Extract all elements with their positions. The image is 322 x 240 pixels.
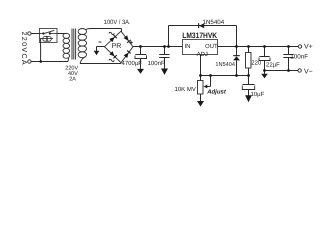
svg-text:100nF: 100nF: [290, 53, 308, 60]
svg-text:Adjust: Adjust: [206, 88, 227, 95]
svg-text:4700µF: 4700µF: [122, 60, 143, 67]
svg-text:IN: IN: [185, 43, 191, 50]
svg-text:1N5404: 1N5404: [203, 19, 225, 26]
svg-text:ADJ: ADJ: [197, 51, 208, 58]
svg-text:OUT: OUT: [205, 43, 218, 50]
svg-text:220VCA: 220VCA: [20, 32, 28, 67]
svg-text:LM317HVK: LM317HVK: [182, 31, 217, 40]
svg-text:10µF: 10µF: [251, 91, 265, 98]
svg-text:220: 220: [251, 60, 262, 67]
svg-text:V+: V+: [304, 44, 313, 51]
svg-text:100nF: 100nF: [148, 60, 165, 67]
svg-text:PR: PR: [112, 43, 122, 50]
svg-text:V−: V−: [304, 69, 313, 76]
svg-text:100V / 3A.: 100V / 3A.: [104, 19, 131, 26]
svg-text:22µF: 22µF: [266, 61, 280, 68]
svg-text:10K MV: 10K MV: [175, 86, 196, 93]
svg-text:1N5404: 1N5404: [215, 62, 235, 68]
svg-text:2A: 2A: [69, 77, 76, 83]
